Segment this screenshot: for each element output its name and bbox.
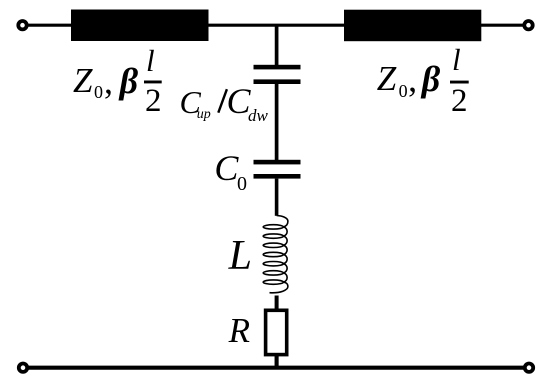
label Z right subscript 0 (399, 82, 408, 100)
wire top-middle (209, 24, 345, 27)
label Z right (377, 61, 396, 96)
wire from resistor to bottom wire (275, 356, 279, 368)
label Z left (73, 63, 92, 98)
terminal bottom-right (525, 364, 533, 372)
label L (229, 235, 252, 277)
wire from inductor to resistor R (275, 296, 279, 311)
label Cdw (227, 83, 251, 119)
fraction bar of l/2 left (144, 81, 162, 84)
slash of Cup/Cdw (218, 89, 227, 113)
capacitor C0 plate 1 (254, 160, 301, 165)
label R (229, 313, 250, 348)
label 2 denominator right (451, 85, 468, 118)
label Cup (180, 86, 201, 118)
capacitor Cup/Cdw plate 1 (254, 65, 301, 70)
transmission line section right (Z0, beta l/2) (344, 10, 481, 42)
terminal top-right (524, 21, 532, 29)
transmission line section left (Z0, beta l/2) (71, 10, 209, 42)
label beta right (422, 61, 440, 97)
terminal bottom-left (19, 364, 27, 372)
capacitor C0 plate 2 (254, 174, 301, 179)
wire from C0 to inductor (275, 179, 279, 216)
wire between capacitors (275, 84, 279, 160)
label comma right (408, 61, 417, 97)
wire vertical branch from top wire to capacitor Cup/Cdw (275, 25, 279, 65)
wire bottom (27, 366, 525, 370)
resistor R body (266, 310, 287, 354)
label C0 (214, 150, 238, 186)
label l numerator left (146, 45, 155, 76)
label beta left (120, 63, 138, 99)
label 2 denominator left (145, 85, 162, 118)
capacitor Cup/Cdw plate 2 (254, 79, 301, 84)
label comma left (104, 63, 113, 99)
fraction bar of l/2 right (450, 81, 469, 84)
label C0 subscript 0 (237, 174, 247, 194)
terminal top-left (18, 21, 26, 29)
label Cup subscript up (197, 108, 211, 122)
label Z left subscript 0 (94, 83, 103, 101)
wire top-left (27, 24, 73, 27)
label l numerator right (452, 44, 461, 75)
wire top-right (481, 24, 525, 27)
inductor L coil (263, 216, 288, 293)
label Cdw subscript dw (248, 107, 268, 124)
